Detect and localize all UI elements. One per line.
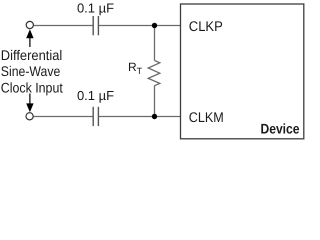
wire vertical resistor branch top bbox=[154, 26, 156, 61]
wire vertical resistor branch bottom bbox=[154, 86, 156, 117]
label differential sine-wave clock input bbox=[1, 47, 63, 95]
svg-text:CLKP: CLKP bbox=[189, 18, 223, 34]
device box U1 bbox=[181, 4, 304, 139]
junction node top bbox=[152, 23, 157, 28]
svg-text:0.1 µF: 0.1 µF bbox=[77, 88, 114, 103]
wire top: C1 to device bbox=[99, 25, 181, 27]
svg-text:Differential: Differential bbox=[1, 47, 63, 63]
svg-text:0.1 µF: 0.1 µF bbox=[77, 1, 114, 16]
terminal bottom (input M) bbox=[26, 113, 33, 120]
arrow down to bottom terminal bbox=[26, 94, 33, 113]
svg-text:CLKM: CLKM bbox=[189, 109, 224, 125]
junction node bottom bbox=[152, 114, 157, 119]
terminal top (input P) bbox=[26, 21, 33, 28]
resistor RT bbox=[148, 61, 160, 86]
capacitor C2 0.1uF bottom bbox=[93, 107, 98, 126]
wire bottom: C2 to device bbox=[99, 116, 181, 118]
capacitor C1 0.1uF top bbox=[93, 16, 98, 35]
arrow up to top terminal bbox=[26, 29, 33, 47]
svg-text:Clock Input: Clock Input bbox=[1, 79, 63, 95]
svg-text:Device: Device bbox=[261, 121, 300, 137]
wire bottom: terminal to C2 bbox=[34, 116, 94, 118]
svg-text:Sine-Wave: Sine-Wave bbox=[1, 63, 61, 79]
wire top: terminal to C1 bbox=[34, 25, 94, 27]
